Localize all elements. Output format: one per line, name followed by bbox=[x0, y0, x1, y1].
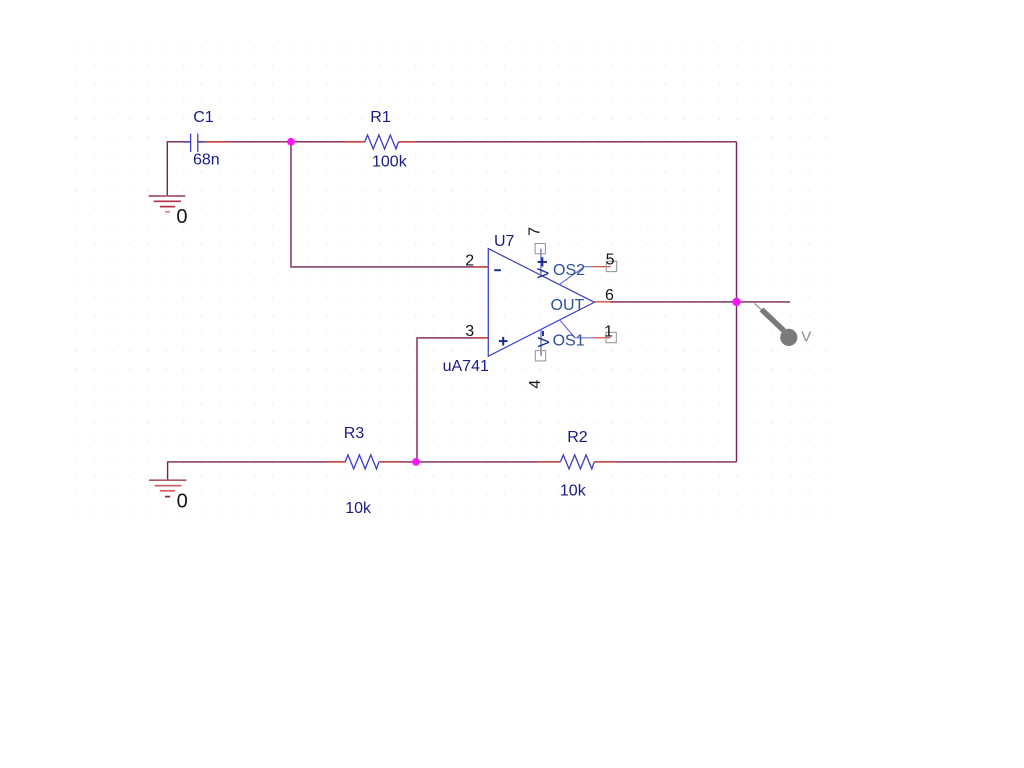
wire output to probe bbox=[610, 301, 790, 303]
svg-text:10k: 10k bbox=[345, 500, 372, 517]
wire noninverting input to bottom node bbox=[417, 338, 488, 462]
svg-text:7: 7 bbox=[527, 227, 544, 236]
svg-text:OUT: OUT bbox=[551, 297, 585, 314]
V+ pin name rotated bbox=[538, 257, 547, 266]
node B junction dot bbox=[412, 458, 420, 466]
svg-text:2: 2 bbox=[465, 253, 474, 270]
pin 6 output stub bbox=[594, 301, 611, 303]
svg-text:V: V bbox=[536, 268, 553, 279]
output junction dot node bbox=[732, 298, 740, 306]
voltage probe V bbox=[755, 304, 812, 347]
V- pin name rotated bbox=[542, 331, 544, 336]
svg-text:OS2: OS2 bbox=[553, 262, 585, 279]
wire from node A down to inverting input bbox=[291, 142, 488, 267]
svg-text:3: 3 bbox=[465, 323, 474, 340]
svg-text:U7: U7 bbox=[494, 233, 515, 250]
grid dots bbox=[70, 41, 832, 519]
svg-text:0: 0 bbox=[177, 491, 188, 513]
svg-text:R1: R1 bbox=[370, 109, 391, 126]
svg-text:5: 5 bbox=[606, 252, 615, 269]
resistor R3 bbox=[328, 455, 402, 469]
ground 0 (bottom left) bbox=[149, 480, 187, 496]
wire top horizontal from C1 corner to right vertical bbox=[167, 142, 190, 196]
OS2 pin 5 leader bbox=[559, 267, 592, 285]
minus sign inverting input bbox=[494, 269, 501, 271]
svg-text:uA741: uA741 bbox=[443, 358, 489, 375]
V+ pin 7 line bbox=[540, 249, 542, 277]
pin 4 terminal square bbox=[535, 351, 545, 361]
pin 3 stub bbox=[473, 337, 488, 339]
wire R2 to right vertical bbox=[594, 461, 736, 463]
wire C1 to R1 bbox=[198, 141, 365, 143]
svg-text:R2: R2 bbox=[567, 429, 588, 446]
pin 5 terminal square bbox=[606, 261, 616, 271]
svg-text:1: 1 bbox=[604, 324, 613, 341]
wire R3 to R2 bbox=[379, 461, 561, 463]
pin 2 stub bbox=[474, 266, 488, 268]
wire right vertical bbox=[736, 142, 738, 462]
svg-text:68n: 68n bbox=[193, 152, 220, 169]
svg-text:R3: R3 bbox=[344, 425, 365, 442]
svg-text:10k: 10k bbox=[560, 483, 587, 500]
OS1 pin 1 leader bbox=[560, 320, 593, 338]
wire bottom left to R3 bbox=[168, 462, 346, 480]
V- pin 4 line bbox=[540, 330, 542, 356]
svg-text:0: 0 bbox=[176, 206, 187, 228]
node A junction dot bbox=[287, 138, 295, 146]
pin 5 stub bbox=[593, 266, 611, 268]
pin 1 stub bbox=[593, 337, 610, 339]
svg-text:OS1: OS1 bbox=[553, 333, 585, 350]
svg-text:100k: 100k bbox=[372, 153, 408, 170]
wire R1 to right vertical bbox=[398, 141, 736, 143]
resistor R2 bbox=[538, 455, 617, 469]
svg-text:4: 4 bbox=[527, 380, 544, 389]
svg-text:V: V bbox=[536, 337, 553, 348]
op-amp U7 triangle bbox=[488, 249, 594, 357]
svg-text:C1: C1 bbox=[193, 109, 214, 126]
svg-text:V: V bbox=[801, 329, 811, 346]
svg-text:6: 6 bbox=[605, 287, 614, 304]
ground 0 (top left) bbox=[149, 196, 186, 212]
pin 1 terminal square bbox=[606, 332, 616, 342]
capacitor C1 bbox=[184, 134, 231, 152]
pin 7 terminal square bbox=[535, 244, 545, 254]
resistor R1 bbox=[345, 135, 416, 149]
plus sign noninverting input bbox=[499, 337, 508, 346]
